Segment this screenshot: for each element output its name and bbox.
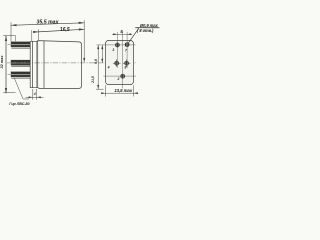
svg-text:21,5: 21,5 bbox=[91, 76, 95, 84]
svg-text:32 max: 32 max bbox=[0, 55, 4, 69]
base left edge extension bbox=[31, 30, 33, 41]
dimension 35,5max: dimension line bbox=[11, 22, 84, 27]
bottom view plate bbox=[105, 40, 133, 84]
dimension 16,5: left extension line bbox=[37, 29, 39, 40]
pin column centerline right bbox=[126, 32, 128, 68]
can flange seam line bbox=[43, 41, 45, 88]
dimension 21,5 (row1-can bottom) bbox=[96, 45, 104, 89]
dimension 35,5max: extension line at pin tips bbox=[10, 22, 12, 41]
dimension 13,5max below plate bbox=[101, 85, 138, 96]
dimension 9,6 (row1-row2) bbox=[101, 45, 103, 63]
svg-text:4: 4 bbox=[33, 92, 36, 96]
svg-text:13,5 max: 13,5 max bbox=[114, 88, 132, 93]
svg-text:16,5: 16,5 bbox=[60, 27, 70, 33]
svg-text:9,6: 9,6 bbox=[94, 59, 98, 64]
leader to hole callout bbox=[128, 28, 139, 43]
base block right inner edge bbox=[36, 41, 38, 87]
row1 centerline bbox=[97, 44, 136, 46]
base block inner edge bbox=[31, 41, 33, 87]
small dimension 4 at base bottom bbox=[26, 89, 44, 100]
vertical centerline of plate bbox=[122, 32, 124, 89]
row3 centerline bbox=[103, 75, 136, 77]
hole A2 (pin 7) bbox=[125, 42, 130, 47]
svg-text:35,5 max: 35,5 max bbox=[37, 19, 60, 25]
dimension 16,5: dimension line bbox=[33, 28, 84, 33]
svg-text:8: 8 bbox=[124, 65, 126, 69]
pin P1 (top, hatched) bbox=[8, 42, 31, 49]
pin P2 (middle, hatched) bbox=[11, 60, 31, 67]
hole B1 (pin 4) with crosshair bbox=[113, 59, 121, 67]
hole C1 (pin 2) bbox=[120, 74, 125, 79]
hole B2 (pin 8) with crosshair bbox=[123, 59, 131, 67]
svg-text:4: 4 bbox=[107, 65, 110, 69]
relay can (side view) bbox=[38, 41, 82, 89]
svg-text:Гир ЛВС-80: Гир ЛВС-80 bbox=[9, 102, 29, 106]
right extension line with down arrow bbox=[83, 20, 85, 62]
pin column centerline left bbox=[116, 32, 118, 68]
leader from pin P3 to note bbox=[15, 79, 30, 100]
dimension 5 above plate bbox=[112, 33, 132, 35]
pin P3 (bottom, hatched) bbox=[8, 72, 31, 79]
hole A1 (pin 3) bbox=[115, 43, 120, 48]
base block outer edge bbox=[30, 41, 38, 87]
svg-text:( 8 отв.): ( 8 отв.) bbox=[137, 28, 154, 33]
callout fraction bar bbox=[135, 27, 159, 29]
row2 centerline across side view bbox=[7, 62, 136, 64]
vertical dimension 32max: dimension line bbox=[3, 36, 15, 94]
svg-text:3: 3 bbox=[112, 48, 114, 52]
svg-text:2: 2 bbox=[116, 77, 119, 81]
